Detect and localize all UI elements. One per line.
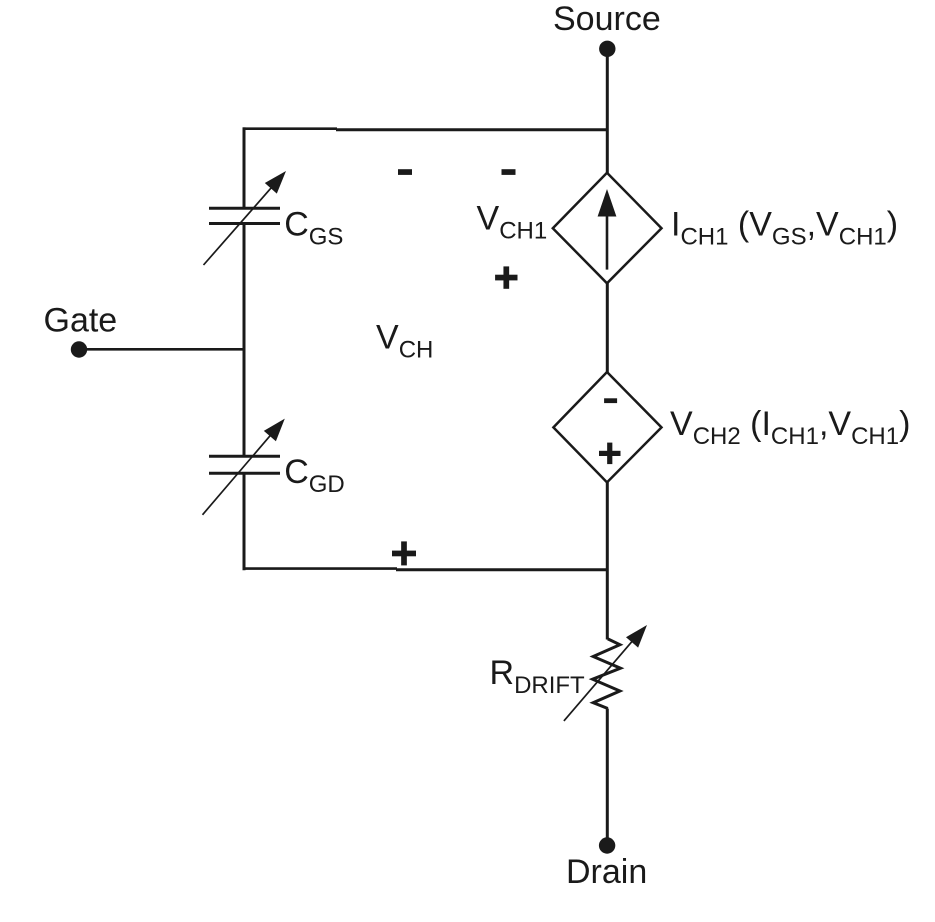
current source I_CH1 diamond: [553, 173, 662, 283]
variability arrow through C_GD: [203, 419, 285, 515]
svg-text:Source: Source: [553, 0, 661, 38]
arrow inside I_CH1: [598, 189, 617, 270]
wire: left rail lower segment: [243, 473, 246, 570]
wire: resistor to drain: [606, 709, 609, 846]
variability arrow through R_DRIFT: [564, 625, 647, 721]
minus sign of V_CH (top): [398, 169, 412, 175]
wire: left rail upper segment: [243, 127, 246, 208]
svg-text:CGD: CGD: [284, 453, 345, 498]
svg-text:Gate: Gate: [44, 302, 118, 340]
wire: gate lead: [79, 348, 244, 351]
svg-text:VCH1: VCH1: [477, 199, 548, 244]
wire: top horizontal rail: [243, 129, 608, 130]
plus sign of V_CH1: [495, 266, 517, 288]
variability arrow through C_GS: [204, 171, 287, 265]
svg-text:CGS: CGS: [284, 205, 343, 250]
node: Drain terminal dot: [599, 837, 615, 853]
capacitor C_GS plates: [209, 208, 280, 223]
node: Gate terminal dot: [71, 341, 87, 357]
svg-text:RDRIFT: RDRIFT: [490, 654, 586, 699]
wire: between I_CH1 and V_CH2: [606, 283, 609, 373]
voltage source V_CH2 diamond: [553, 372, 661, 482]
wire: bottom horizontal rail: [243, 569, 608, 570]
svg-text:Drain: Drain: [566, 853, 647, 891]
wire: source lead down to current source: [606, 49, 609, 174]
resistor R_DRIFT zigzag: [593, 639, 621, 709]
minus sign inside V_CH2: [604, 398, 617, 403]
svg-text:VCH: VCH: [376, 319, 433, 364]
wire: V_CH2 down through bottom rail to resistor: [606, 482, 609, 640]
node: Source terminal dot: [599, 41, 615, 57]
wire: left rail between capacitors: [243, 224, 246, 457]
plus sign inside V_CH2: [599, 443, 621, 465]
minus sign of V_CH1: [502, 169, 516, 175]
svg-text:VCH2 (ICH1,VCH1): VCH2 (ICH1,VCH1): [670, 405, 910, 450]
capacitor C_GD plates: [209, 456, 280, 473]
svg-text:ICH1 (VGS,VCH1): ICH1 (VGS,VCH1): [671, 205, 898, 250]
plus sign of V_CH (bottom): [392, 541, 416, 565]
